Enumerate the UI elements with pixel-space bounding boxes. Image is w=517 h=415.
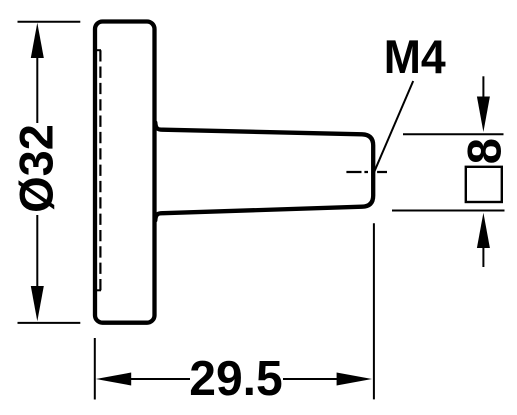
hidden line ticks (recess outline top): [94, 49, 102, 51]
extension line right (29.5): [373, 223, 375, 399]
svg-text:M4: M4: [384, 30, 446, 83]
centerline (dash-dot axis at stem tip): [346, 171, 387, 173]
knob stem (tapered shank): [155, 123, 373, 221]
dimension line below (8): [482, 245, 484, 267]
arrowhead down (Ø32): [31, 286, 44, 321]
svg-text:8: 8: [458, 138, 511, 164]
arrowhead up (8): [477, 213, 490, 248]
dimension line above (8): [482, 76, 484, 100]
extension line top (8): [403, 133, 504, 135]
hidden line (dashed recess line): [99, 50, 101, 290]
extension line left (29.5): [94, 338, 96, 400]
dimension line left segment (29.5): [112, 378, 190, 380]
dimension line lower segment (Ø32): [36, 215, 38, 305]
arrowhead up (Ø32): [31, 23, 44, 58]
knob flange (disc side view): [95, 22, 155, 323]
extension line top (Ø32): [18, 21, 81, 23]
extension line bottom (8): [392, 210, 505, 212]
dimension line upper segment (Ø32): [36, 40, 38, 123]
arrowhead down (8): [477, 97, 490, 133]
hidden line ticks (recess outline bottom): [94, 289, 102, 291]
svg-text:29.5: 29.5: [189, 352, 283, 406]
extension line bottom (Ø32): [18, 322, 81, 324]
square section symbol: [466, 167, 502, 202]
arrowhead right (29.5): [337, 373, 372, 386]
arrowhead left (29.5): [96, 373, 131, 386]
svg-text:Ø32: Ø32: [9, 124, 62, 213]
dimension line right segment (29.5): [283, 378, 360, 380]
leader line from M4 to stem tip: [374, 81, 413, 172]
